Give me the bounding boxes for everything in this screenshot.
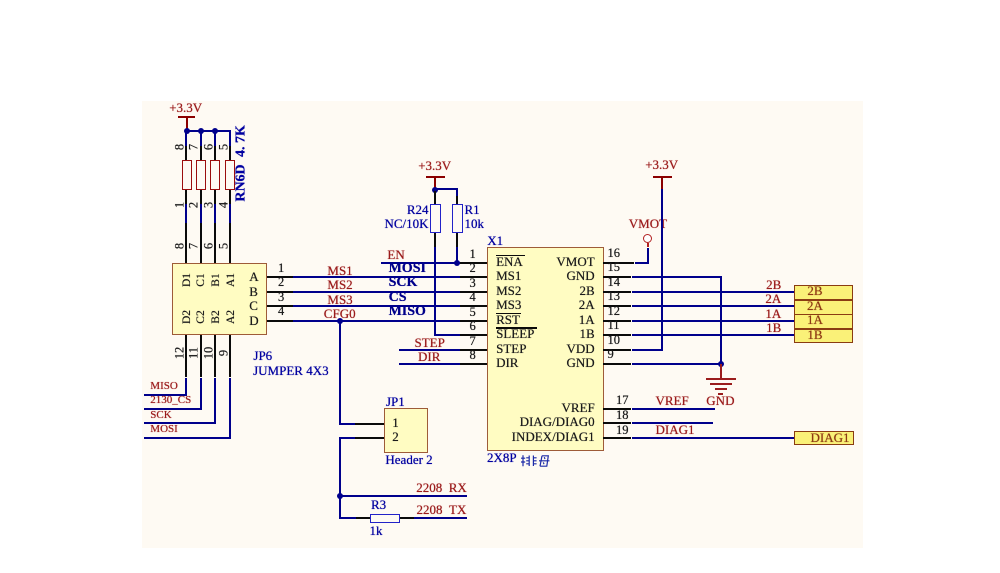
no-connect circle VMOT [643,234,653,244]
wire GND pin9 [632,363,722,365]
wire 2208 TX [414,517,467,519]
pin number RN6D 4 [217,202,230,208]
pin stub R1 bottom [456,233,458,247]
label R1 [465,203,480,217]
wire RN6D element 1 top [185,131,187,146]
label paimu (Chinese) [520,454,550,468]
pin stub JP6 top 2 [200,223,202,265]
pin number RN6D 8 [173,144,186,150]
label JP6 A1 [224,273,236,287]
pin number X1 16 [608,247,621,260]
overline ENA [496,255,525,257]
wire to R3 [339,517,356,519]
pin stub X1 12 [603,320,631,322]
pin number JP6 10 [202,347,215,360]
pin number X1 12 [608,305,621,318]
pin stub JP1 1 [355,423,385,425]
wire RN6D 3 to JP6 [214,204,216,223]
pin stub X1 13 [603,305,631,307]
pin name X1 ENA [496,255,523,269]
wire JP6 pin1 to X1 [267,276,460,278]
pin stub X1 3 [460,291,487,293]
wire 2130_CS horizontal [144,408,202,410]
pin number X1 2 [346,262,476,275]
pin number X1 11 [608,319,620,332]
pin stub R3 left [356,517,370,519]
pin name X1 2B [465,284,595,298]
label RN6D [234,165,249,202]
pin stub X1 9 [603,363,631,365]
wire MOSI vertical [229,378,231,438]
junction RN6D bus 2 [198,128,204,134]
pin number RN6D 6 [202,144,215,150]
power +3.3V (R24/R1) [418,159,451,173]
label JP6 A2 [224,310,236,324]
net label 2130_CS [150,395,191,407]
resistor R1 [452,204,463,233]
label JUMPER 4X3 [253,364,329,378]
pin name X1 MS2 [496,284,521,298]
pin stub X1 7 [460,349,487,351]
label Header 2 [385,453,432,467]
wire MISO junction to JP1 pin1 [339,321,341,425]
pin number JP6 6 [202,243,215,249]
net label VREF [656,394,689,408]
pin number JP6 11 [188,347,201,359]
connector JP1 body [384,408,428,453]
wire RN6D 4 to JP6 [229,204,231,223]
label JP6 A [249,270,258,284]
power +3.3V (RN6D) [169,101,202,115]
net label VMOT [629,217,667,231]
pin number JP6 7 [188,243,201,249]
pin number X1 10 [608,334,621,347]
pin name X1 VMOT [465,255,595,269]
net label MS1 [327,264,352,278]
net label MOSI [389,262,426,277]
label JP6 designator [253,349,272,363]
pin name X1 DIR [496,356,518,370]
pin number X1 9 [608,348,614,361]
resistor R24 [430,204,441,233]
wire MISO vertical [185,378,187,395]
wire 2130_CS vertical [200,378,202,409]
wire RN6D element 2 top [200,131,202,146]
pin stub JP6 11 [200,335,202,378]
pin stub RN6D 2 [200,190,202,204]
junction RN6D bus 3 [212,128,218,134]
pin number JP6 5 [217,243,230,249]
pin number X1 3 [346,277,476,290]
pin stub JP6 2 [267,291,294,293]
pin stub JP6 top 1 [185,223,187,265]
wire 2B [632,291,795,293]
pin name X1 MS1 [496,269,521,283]
pin stub X1 11 [603,334,631,336]
junction R1 EN [454,260,460,266]
net label MS3 [327,293,352,307]
pin name X1 VREF [465,401,595,415]
junction GND [718,361,724,367]
pin stub X1 17 [603,408,631,410]
pin stub JP6 9 [229,335,231,378]
wire EN [381,262,461,264]
pin stub RN6D 6 [214,146,216,160]
pin number X1 18 [616,409,629,422]
wire RN6D element 4 top [229,131,231,146]
junction +3.3V R24 [432,187,438,193]
pin number JP6 2 [278,276,284,289]
pin stub X1 18 [603,422,631,424]
wire JP6 pin3 to X1 [267,305,460,307]
pin number RN6D 7 [188,144,201,150]
wire +3.3V to R1 [434,188,458,190]
pin name JP1 2 [392,430,399,444]
net label 2B [651,278,781,292]
net label DIR [418,350,440,364]
net label CFG0 [324,307,356,321]
connector JP6 body [172,263,268,336]
overline RST [496,313,521,315]
pin stub R3 right [400,517,415,519]
wire GND pin15 [632,276,722,278]
label JP6 D [249,314,258,328]
wire 2A [632,305,795,307]
pin name X1 GND [465,356,595,370]
port label 1B [792,328,838,342]
net label MISO [389,305,426,320]
pin number RN6D 3 [202,202,215,208]
ground symbol [720,364,722,378]
pin stub RN6D 8 [185,146,187,160]
pin stub JP6 top 3 [214,223,216,265]
label 1k [370,524,383,538]
pin number X1 15 [608,261,621,274]
net label SCK [150,410,171,422]
port label 2B [792,284,838,298]
wire MOSI horizontal [144,437,231,439]
wire SCK horizontal [144,422,216,424]
net label 2A [651,292,781,306]
net label SCK [389,276,418,291]
wire DIAG1 [632,437,794,439]
pin name X1 RST [496,313,520,327]
pin number X1 1 [346,248,476,261]
label JP1 designator [386,395,405,409]
wire R1 to EN [456,247,458,263]
pin stub RN6D 7 [200,146,202,160]
IC X1 body [487,247,604,451]
port label DIAG1 [807,431,854,445]
pin number X1 13 [608,290,621,303]
pin stub X1 16 [603,262,634,264]
wire JP6 pin2 to X1 [267,291,460,293]
pin stub X1 2 [460,276,487,278]
label JP6 D1 [181,273,193,287]
pin stub JP6 10 [214,335,216,378]
pin name X1 DIAG/DIAG0 [465,415,595,429]
pin stub JP1 2 [355,437,385,439]
pin name X1 GND [465,269,595,283]
pin name X1 INDEX/DIAG1 [465,430,595,444]
port DIAG1 [794,431,854,445]
pin name X1 STEP [496,342,526,356]
wire DIAG/DIAG0 [632,422,714,424]
junction RN6D bus 1 [184,128,190,134]
label JP6 B2 [210,311,222,324]
power +3.3V (VDD) [645,158,678,172]
wire JP6 pin4 to X1 [267,320,460,322]
pin number JP6 1 [278,262,284,275]
pin stub X1 14 [603,291,631,293]
net label DIAG1 [656,423,695,437]
label JP6 C2 [195,311,207,324]
pin stub X1 8 [460,363,487,365]
net label MISO [150,381,178,393]
pin name X1 1B [465,327,595,341]
pin name X1 SLEEP [496,327,534,341]
net label MOSI [150,424,178,436]
pin number X1 8 [346,349,476,362]
pin stub JP6 12 [185,335,187,378]
junction 2208 RX [337,493,343,499]
pin stub JP6 3 [267,305,294,307]
label JP6 C1 [195,273,207,286]
pin stub JP6 4 [267,320,294,322]
net label MS2 [327,278,352,292]
label 2X8P [487,451,517,465]
wire RN6D top bus [186,130,232,132]
pin stub R1 top [456,196,458,204]
net label 2208 RX [337,481,467,495]
pin stub JP6 1 [267,276,294,278]
overline SLEEP [496,327,537,329]
wire RN6D 1 to JP6 [185,204,187,223]
wire R24 to X1 pin6 [434,247,436,336]
pin number RN6D 5 [217,144,230,150]
label JP6 C [249,299,258,313]
label R3 [371,498,386,512]
pin number RN6D 2 [188,202,201,208]
pin stub RN6D 5 [229,146,231,160]
net label 1B [651,321,781,335]
resistor RN6D element 3 [210,160,220,190]
pin number X1 5 [346,306,476,319]
junction MISO to JP1 [337,318,343,324]
pin stub RN6D 3 [214,190,216,204]
pin stub X1 10 [603,349,631,351]
label NC/10K [299,217,429,231]
pin number X1 4 [346,291,476,304]
wire 1A [632,320,795,322]
wire MISO horizontal [144,394,187,396]
pin name X1 VDD [465,342,595,356]
port label 1A [792,313,838,327]
pin stub RN6D 4 [229,190,231,204]
pin number X1 7 [346,335,476,348]
port group 2B 2A 1A 1B outline [794,285,852,343]
pin stub X1 5 [460,320,487,322]
label X1 designator [487,234,503,248]
label 10k [465,217,485,231]
label JP6 B1 [210,273,222,286]
pin stub X1 1 [460,262,487,264]
pin number X1 6 [346,320,476,333]
pin name X1 1A [465,313,595,327]
resistor RN6D element 4 [225,160,235,190]
pin name X1 2A [465,298,595,312]
wire JP1 pin2 down [339,437,354,439]
port label 2A [792,299,838,313]
pin name JP1 1 [392,416,399,430]
net label STEP [415,336,445,350]
pin number JP6 8 [173,243,186,249]
pin stub RN6D 1 [185,190,187,204]
wire 1B [632,334,795,336]
label 4.7K [234,125,249,157]
wire STEP [399,349,460,351]
pin number JP6 4 [278,305,284,318]
wire VMOT to pin16 [647,243,649,247]
pin name X1 MS3 [496,298,521,312]
pin number X1 19 [616,424,629,437]
resistor R3 [370,514,400,524]
wire RN6D element 3 top [214,131,216,146]
pin number RN6D 1 [173,202,186,208]
label JP6 B [249,285,258,299]
wire DIR [399,363,460,365]
label JP6 D2 [181,310,193,324]
pin stub X1 19 [603,437,631,439]
resistor RN6D element 2 [196,160,206,190]
resistor RN6D element 1 [182,160,192,190]
pin number JP6 3 [278,291,284,304]
wire VREF [632,408,715,410]
pin number JP6 9 [217,350,230,356]
pin stub JP6 top 4 [229,223,231,265]
net label 1A [651,307,781,321]
pin stub R24 top [434,191,436,204]
wire 2208 RX [340,495,467,497]
net label 2208 TX [336,503,466,517]
pin number X1 14 [608,276,621,289]
wire RN6D 2 to JP6 [200,204,202,223]
label R24 [299,203,429,217]
pin number X1 17 [616,394,629,407]
net label EN [387,248,404,262]
net label GND [706,394,734,408]
pin stub X1 6 (from R24) [460,334,487,336]
net label CS [389,291,407,306]
wire +3.3V to VDD pin10 [661,189,663,350]
wire SCK vertical [214,378,216,424]
pin number JP6 12 [173,347,186,360]
pin stub X1 15 [603,276,631,278]
canvas sheet background [142,101,863,548]
pin stub X1 4 [460,305,487,307]
pin stub R24 bottom [434,233,436,247]
